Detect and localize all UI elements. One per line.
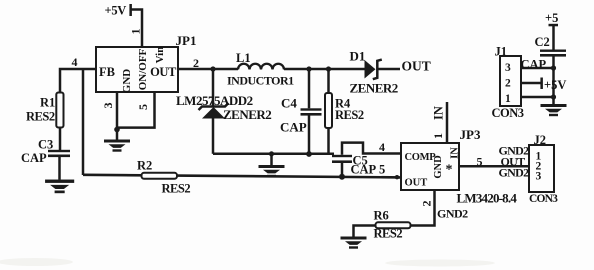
wire JP1 pin3 <box>116 92 119 130</box>
junction node at zener tap <box>210 66 215 71</box>
junction node C4 bottom <box>306 151 312 157</box>
svg-text:CON3: CON3 <box>529 193 558 205</box>
svg-text:LM3420-8.4: LM3420-8.4 <box>457 191 518 206</box>
svg-text:OUT: OUT <box>150 65 177 79</box>
wire L1 to D1 <box>284 68 365 71</box>
capacitor C2 <box>521 35 567 72</box>
junction node C5 bottom on rail <box>339 174 345 180</box>
ground stem mid <box>270 154 273 165</box>
resistor R6 <box>374 209 411 241</box>
resistor R1 <box>26 93 64 128</box>
wire ground stem under JP1 <box>116 130 119 140</box>
J1 pin1 wire <box>521 96 554 99</box>
svg-text:R6: R6 <box>374 209 389 223</box>
svg-text:RES2: RES2 <box>335 108 364 122</box>
IC JP3 LM3420 <box>401 106 517 206</box>
power port bar +5 top-right <box>549 24 559 27</box>
svg-text:C3: C3 <box>38 138 53 152</box>
svg-text:3: 3 <box>101 103 115 109</box>
ground under JP1 <box>104 140 130 152</box>
junction node JP1 pins 3-5 <box>114 127 120 133</box>
svg-text:5: 5 <box>379 163 385 177</box>
zener diode D1 <box>350 49 398 96</box>
svg-text:J2: J2 <box>534 133 547 147</box>
svg-text:C2: C2 <box>535 35 550 49</box>
svg-text:COMP: COMP <box>405 152 437 163</box>
ground under C2 <box>541 104 567 116</box>
svg-text:CAP: CAP <box>521 58 547 72</box>
svg-text:Vin: Vin <box>154 47 166 64</box>
junction node C2 pin1 <box>551 94 556 99</box>
svg-text:1: 1 <box>129 29 143 35</box>
svg-text:OUT: OUT <box>402 59 431 74</box>
R4 top stem <box>327 69 330 93</box>
svg-text:D1: D1 <box>350 49 366 64</box>
svg-text:CAP: CAP <box>21 151 47 165</box>
svg-text:RES2: RES2 <box>162 182 191 196</box>
svg-text:GND2: GND2 <box>437 207 468 221</box>
svg-text:*: * <box>446 163 453 178</box>
JP3 IN pin wire <box>446 102 449 143</box>
junction node C2 pin3 <box>551 65 556 70</box>
pin 2 wire <box>178 68 238 71</box>
IC JP1 LM2575 <box>72 29 200 111</box>
C5 bottom stem <box>341 163 344 177</box>
svg-text:+5: +5 <box>545 11 558 25</box>
C2 top stem <box>552 25 555 50</box>
svg-text:3: 3 <box>505 62 511 74</box>
junction node C4 top <box>306 66 311 71</box>
J1 pin2 wire <box>521 82 542 85</box>
junction node R4 top <box>326 66 331 71</box>
C2 bottom stem to ground <box>552 57 555 105</box>
C4 bottom stem <box>308 114 311 155</box>
capacitor C4 <box>280 96 322 135</box>
wire C3 to ground <box>58 157 61 180</box>
power +5V wire <box>131 10 143 48</box>
svg-text:GND2: GND2 <box>499 166 530 180</box>
svg-text:R1: R1 <box>40 96 55 110</box>
svg-text:3: 3 <box>536 171 542 183</box>
svg-text:GND: GND <box>121 69 133 94</box>
svg-text:RES2: RES2 <box>26 110 55 124</box>
svg-text:ZENER2: ZENER2 <box>223 107 271 122</box>
junction node mid ground tap <box>269 151 274 156</box>
svg-text:R2: R2 <box>137 159 152 173</box>
zener diode D2 <box>176 93 271 122</box>
svg-text:CAP: CAP <box>280 120 307 135</box>
svg-text:LM2575ADD2: LM2575ADD2 <box>176 93 253 108</box>
zener D2 bottom stem <box>212 119 215 154</box>
svg-text:FB: FB <box>99 65 115 79</box>
zener D2 top stem <box>212 69 215 106</box>
resistor R4 <box>325 93 364 128</box>
svg-text:4: 4 <box>379 140 385 154</box>
power port bar +5V top-left <box>129 4 132 16</box>
svg-text:IN: IN <box>432 106 446 120</box>
svg-text:5: 5 <box>477 155 483 169</box>
R4 bottom stem <box>327 128 330 154</box>
svg-text:JP3: JP3 <box>460 127 481 142</box>
resistor R2 <box>137 159 190 196</box>
svg-text:OUT: OUT <box>405 178 428 189</box>
ground mid under zener node <box>259 165 285 177</box>
svg-text:CON3: CON3 <box>492 106 524 120</box>
C5 top jog wire to COMP pin <box>342 143 401 155</box>
svg-text:1: 1 <box>431 133 445 139</box>
wire JP1 pin5 <box>117 92 155 128</box>
connector J1 <box>492 45 524 121</box>
svg-text:+5V: +5V <box>544 78 566 92</box>
C4 top stem <box>308 69 311 108</box>
svg-text:L1: L1 <box>236 51 251 65</box>
scan smudges <box>0 258 495 267</box>
ground under C3 <box>45 180 74 194</box>
connector J2 <box>499 133 559 205</box>
mid node wire to C5 <box>213 153 334 156</box>
svg-text:ZENER2: ZENER2 <box>350 81 398 96</box>
svg-text:2: 2 <box>420 201 434 207</box>
svg-text:RES2: RES2 <box>374 227 403 241</box>
bottom rail wire <box>83 175 401 178</box>
svg-text:2: 2 <box>505 78 511 90</box>
capacitor C5 <box>332 140 385 177</box>
inductor L1 <box>227 51 294 88</box>
J1 pin3 wire <box>521 67 554 70</box>
wire R1 to C3 <box>59 128 62 151</box>
svg-text:IN: IN <box>450 147 461 159</box>
svg-text:CAP: CAP <box>351 163 377 177</box>
JP3 pin5 wire to J2 <box>459 165 529 168</box>
capacitor C3 <box>21 138 70 165</box>
svg-text:C4: C4 <box>281 96 297 111</box>
svg-text:2: 2 <box>193 56 199 70</box>
junction node rail at JP3 <box>395 175 399 179</box>
svg-text:GND: GND <box>433 155 444 179</box>
svg-text:JP1: JP1 <box>176 33 197 48</box>
pin 4 wire <box>60 69 96 93</box>
ground under R6 <box>341 237 367 249</box>
svg-text:1: 1 <box>505 93 511 105</box>
svg-text:INDUCTOR1: INDUCTOR1 <box>227 74 294 88</box>
wire pin4 branch down to bottom rail <box>82 69 85 175</box>
svg-text:4: 4 <box>72 55 78 69</box>
power port bar +5V at J1 pin2 <box>540 78 543 90</box>
svg-text:ON/OFF: ON/OFF <box>137 48 149 90</box>
svg-text:+5V: +5V <box>105 4 127 18</box>
svg-text:J1: J1 <box>495 45 508 59</box>
svg-text:5: 5 <box>136 104 150 110</box>
wire D1 to OUT <box>379 68 401 71</box>
JP3 pin2 wire to R6 and ground <box>354 190 435 237</box>
